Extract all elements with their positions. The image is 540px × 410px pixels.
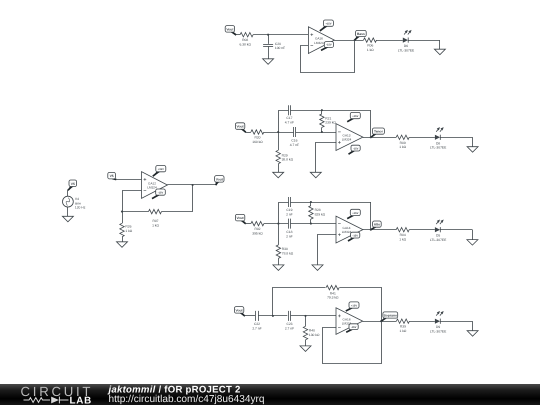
svg-text:+15V: +15V	[352, 115, 358, 118]
wire output block2	[363, 137, 396, 139]
svg-text:LM324: LM324	[314, 41, 324, 45]
ground block1 right	[434, 49, 445, 55]
svg-text:Vout: Vout	[237, 216, 245, 220]
junction block4 top tap	[272, 315, 274, 317]
svg-text:+15V: +15V	[352, 212, 358, 215]
wire R26 to ground	[122, 237, 124, 242]
wire flag to R08	[236, 34, 240, 36]
wire feedback block4	[323, 322, 382, 364]
wire flag to C22	[244, 315, 255, 317]
LED D8	[430, 127, 447, 150]
wire C19 to feedback corner	[291, 202, 371, 204]
power flag +15V block1	[320, 20, 334, 31]
power flag -15V block3	[348, 232, 360, 241]
wire up to R41	[273, 288, 326, 316]
svg-text:LTL-307EE: LTL-307EE	[430, 146, 447, 150]
svg-text:1 kΩ: 1 kΩ	[399, 329, 406, 333]
ground block4 right	[467, 331, 478, 337]
wire + input to ground block3	[318, 235, 337, 265]
svg-text:V5: V5	[71, 182, 75, 186]
capacitor C18	[286, 219, 293, 239]
svg-text:Vout: Vout	[236, 308, 244, 312]
wire to R26	[122, 212, 124, 224]
svg-text:2.7 nF: 2.7 nF	[252, 326, 261, 330]
wire feedback down block3	[370, 202, 372, 230]
wire up to C17	[279, 111, 289, 133]
capacitor C20	[263, 42, 285, 50]
wire buffer + input	[116, 179, 142, 181]
svg-text:78.8 kΩ: 78.8 kΩ	[282, 251, 294, 255]
wire down to ground block2	[472, 137, 474, 146]
voltage source V4 sine 120 Hz	[63, 196, 86, 209]
op-amp GA14	[336, 216, 363, 243]
capacitor C16	[290, 127, 299, 147]
junction block2 input node	[277, 131, 279, 133]
svg-text:130 kΩ: 130 kΩ	[309, 333, 320, 337]
svg-text:-15V: -15V	[351, 326, 357, 329]
svg-text:160 kΩ: 160 kΩ	[252, 140, 263, 144]
wire source bottom	[67, 207, 69, 216]
svg-text:Soprano: Soprano	[384, 313, 397, 317]
junction feedback node	[121, 211, 123, 213]
wire LED to corner block2	[440, 137, 473, 139]
svg-text:+15V: +15V	[325, 23, 331, 26]
wire R28 bottom stub	[310, 219, 312, 223]
ground below R26	[117, 242, 128, 248]
op-amp GA13	[336, 124, 363, 151]
svg-text:LM324: LM324	[342, 230, 352, 234]
ground block3 right	[467, 240, 478, 246]
wire flag to R02	[245, 223, 251, 225]
wire to C20	[268, 35, 270, 44]
svg-text:-15V: -15V	[326, 44, 332, 47]
LED D5	[430, 220, 447, 243]
ground at source	[62, 216, 73, 222]
op-amp GA12	[142, 172, 168, 199]
power flag -15V block1	[321, 42, 334, 51]
junction Alto node	[370, 229, 372, 231]
junction R40 tap	[304, 315, 306, 317]
wire R29 to ground	[278, 164, 280, 173]
wire C16 to op-amp	[296, 132, 336, 134]
wire R09 to LED	[409, 137, 435, 139]
svg-text:LTL-307EE: LTL-307EE	[430, 238, 447, 242]
wire flag to R20	[245, 132, 251, 134]
wire down to ground block4	[472, 321, 474, 331]
flag Vout buffer output	[215, 176, 224, 186]
svg-text:1 kΩ: 1 kΩ	[125, 229, 132, 233]
junction C20 tap	[267, 34, 269, 36]
LED D6	[398, 30, 415, 53]
wire down to ground block3	[472, 230, 474, 240]
resistor R30	[276, 245, 294, 259]
flag Tenor	[371, 128, 384, 137]
svg-text:http://circuitlab.com/c47j8u64: http://circuitlab.com/c47j8u6434yrq	[109, 394, 265, 405]
resistor R21	[320, 114, 337, 128]
wire C18 to op-amp	[291, 223, 337, 225]
logo waveform: wire-resistor-diode	[24, 397, 69, 404]
svg-text:LTL-307EE: LTL-307EE	[430, 330, 447, 334]
svg-text:LTL-307EE: LTL-307EE	[398, 48, 415, 52]
capacitor C23	[285, 311, 294, 331]
power flag -15V block2	[349, 145, 361, 154]
svg-text:-15V: -15V	[158, 192, 164, 195]
svg-text:+15V: +15V	[158, 168, 164, 171]
LED D9	[430, 311, 447, 334]
svg-text:+15V: +15V	[351, 305, 357, 308]
resistor R29	[276, 150, 294, 164]
wire R02 to C18	[264, 223, 288, 225]
wire up to C19	[279, 203, 289, 224]
wire R06 to LED	[377, 40, 403, 42]
wire C23 to op-amp	[291, 315, 336, 317]
junction R28 top	[310, 201, 312, 203]
svg-text:Bass: Bass	[357, 32, 365, 36]
svg-text:239 kΩ: 239 kΩ	[325, 121, 336, 125]
wire to R30	[278, 224, 280, 245]
svg-text:LM324: LM324	[147, 186, 157, 190]
flag Soprano	[382, 312, 398, 321]
wire to R29	[278, 132, 280, 150]
svg-text:1 kΩ: 1 kΩ	[399, 145, 406, 149]
svg-text:4.7 nF: 4.7 nF	[285, 120, 294, 124]
power flag +15V block4	[346, 302, 359, 311]
ground at + input block3	[312, 265, 323, 271]
wire LED to corner block4	[440, 321, 473, 323]
wire R21 bottom stub	[321, 127, 323, 132]
ground block2 right	[467, 147, 478, 153]
svg-text:1 kΩ: 1 kΩ	[399, 238, 406, 242]
power flag -15V block4	[346, 324, 358, 333]
junction R21 top	[321, 109, 323, 111]
svg-text:V5: V5	[110, 174, 114, 178]
wire + input to ground block2	[316, 143, 337, 173]
flag Vout input block2	[235, 123, 245, 132]
svg-text:120 Hz: 120 Hz	[75, 206, 86, 210]
capacitor C19	[286, 197, 293, 216]
wire output block3	[363, 229, 396, 231]
resistor R06	[364, 38, 377, 52]
wire buffer feedback left	[123, 191, 142, 212]
flag V5 at buffer input	[108, 172, 117, 179]
svg-text:38.8 kΩ: 38.8 kΩ	[282, 158, 294, 162]
junction Soprano node	[380, 320, 382, 322]
resistor R39	[396, 319, 409, 333]
svg-text:6.38 kΩ: 6.38 kΩ	[239, 43, 251, 47]
power flag +15V block3	[347, 209, 360, 218]
wire buffer output	[167, 184, 215, 186]
wire source top	[67, 190, 69, 196]
svg-text:Tenor: Tenor	[374, 130, 384, 134]
resistor R40	[303, 326, 320, 340]
power flag -15V buffer	[152, 189, 165, 199]
junction buffer output node	[192, 184, 194, 186]
junction Tenor node	[370, 136, 372, 138]
svg-text:LAB: LAB	[70, 395, 93, 405]
wire R21 top stub	[321, 110, 323, 114]
wire R28 top stub	[310, 202, 312, 206]
junction R28 bottom	[310, 223, 312, 225]
svg-text:Vout: Vout	[226, 27, 234, 31]
flag Vout input block3	[235, 214, 245, 223]
wire C17 to feedback corner	[291, 110, 371, 112]
capacitor C22	[252, 311, 261, 331]
resistor R26	[120, 223, 133, 237]
junction R21 bottom	[321, 131, 323, 133]
wire C20 to ground	[268, 46, 270, 58]
flag Bass	[355, 30, 366, 39]
power flag +15V block2	[347, 112, 360, 121]
capacitor C17	[285, 105, 294, 124]
svg-text:395 kΩ: 395 kΩ	[252, 231, 263, 235]
op-amp GA16	[308, 27, 334, 54]
ground below R29	[273, 172, 284, 178]
svg-text:2 nF: 2 nF	[286, 235, 293, 239]
svg-text:2 nF: 2 nF	[286, 212, 293, 216]
resistor R28	[309, 206, 326, 220]
resistor R20	[251, 130, 264, 144]
resistor R41	[326, 285, 339, 299]
resistor R09	[396, 135, 409, 149]
wire C22 to C23	[258, 315, 287, 317]
wire feedback down block2	[370, 110, 372, 137]
svg-text:1 kΩ: 1 kΩ	[367, 48, 374, 52]
ground below C20	[263, 59, 274, 65]
junction block3 input node	[277, 223, 279, 225]
flag Alto	[371, 221, 381, 229]
ground at + input block2	[310, 172, 321, 178]
svg-text:-15V: -15V	[353, 147, 359, 150]
wire R41 to output node	[340, 288, 382, 322]
wire LED to corner block1	[408, 40, 440, 42]
svg-text:-15V: -15V	[352, 234, 358, 237]
svg-text:4.7 nF: 4.7 nF	[290, 143, 299, 147]
wire R39 to LED	[409, 321, 435, 323]
wire R40 to ground	[305, 340, 307, 346]
svg-text:829 kΩ: 829 kΩ	[315, 212, 326, 216]
wire R04 to LED	[409, 229, 435, 231]
power flag +15V buffer	[153, 166, 166, 177]
resistor R04	[396, 228, 409, 242]
wire output block4	[363, 321, 397, 323]
svg-text:100 nF: 100 nF	[275, 46, 285, 50]
wire down to ground block1	[439, 40, 441, 49]
svg-text:79.3 kΩ: 79.3 kΩ	[327, 296, 339, 300]
wire R07 to output	[162, 185, 193, 212]
op-amp GA18	[336, 308, 363, 335]
wire to R40	[305, 316, 307, 326]
ground below R40	[300, 346, 311, 352]
wire R08 to op-amp	[253, 34, 308, 36]
wire feedback block1	[301, 41, 355, 73]
wire R20 to C16	[264, 132, 294, 134]
wire feedback to R07	[122, 211, 149, 213]
resistor R07	[149, 209, 162, 227]
junction Bass node	[354, 39, 356, 41]
flag V5 at source	[68, 180, 77, 190]
svg-text:1 kΩ: 1 kΩ	[152, 224, 159, 228]
flag Vout input block1	[225, 26, 236, 35]
svg-text:2.7 nF: 2.7 nF	[285, 326, 294, 330]
wire LED to corner block3	[440, 229, 472, 231]
svg-text:Vout: Vout	[237, 125, 245, 129]
footer bar	[0, 384, 540, 405]
wire output block1	[334, 40, 363, 42]
svg-text:Vout: Vout	[216, 177, 224, 181]
resistor R08	[239, 33, 253, 47]
svg-text:LM324: LM324	[342, 138, 352, 142]
ground below R30	[273, 265, 284, 271]
svg-text:Alto: Alto	[374, 223, 380, 227]
wire R30 to ground	[278, 258, 280, 265]
flag Vout input block4	[234, 307, 245, 317]
resistor R02	[251, 221, 264, 235]
